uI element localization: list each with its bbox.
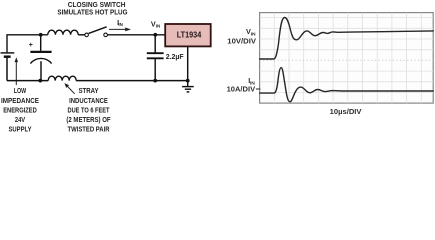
svg-text:+: + [29,42,33,49]
svg-text:ENERGIZED: ENERGIZED [3,107,37,114]
svg-text:DUE TO 6 FEET: DUE TO 6 FEET [68,107,111,114]
inductor L2 stray (bottom) [48,76,76,80]
callout arrow to supply [15,62,17,86]
svg-text:STRAY: STRAY [78,88,98,95]
svg-text:LT1934: LT1934 [177,31,202,40]
label VIN 10V/DIV [227,27,256,45]
svg-text:10A/DIV: 10A/DIV [227,84,256,93]
svg-text:IMPEDANCE: IMPEDANCE [1,98,39,105]
wire switch to VIN node [108,34,166,36]
node cap1 top junction [39,33,43,37]
svg-text:10µs/DIV: 10µs/DIV [330,107,362,116]
ground [187,81,189,87]
node cap1 bottom junction [38,79,42,83]
svg-text:TWISTED PAIR: TWISTED PAIR [68,127,110,134]
callout arrow to stray inductance [67,86,75,94]
svg-text:10V/DIV: 10V/DIV [227,37,256,46]
scope horizontal gridlines [260,18,434,93]
wire bottom rail to ground [76,80,187,82]
scope graticule frame [260,13,434,104]
scope center dashed line [260,59,434,61]
scope vertical gridlines [274,13,421,104]
svg-text:IN: IN [118,22,122,27]
label low impedance supply note [1,88,39,133]
trace IIN waveform [260,68,434,102]
battery V1 24V supply [1,52,15,54]
svg-text:IN: IN [156,24,160,29]
label closing switch note [57,0,127,16]
inductor L1 stray (top) [48,30,78,35]
switch S1 closing switch [85,33,89,37]
svg-text:LOW: LOW [14,88,27,95]
wire top rail from supply to switch [7,35,48,53]
label stray inductance note [66,88,111,133]
op block U1 LT1934 [165,24,211,46]
svg-text:SIMULATES HOT PLUG: SIMULATES HOT PLUG [57,8,127,17]
wire battery to bottom rail [6,58,8,81]
svg-text:24V: 24V [15,117,25,124]
svg-text:(2 METERS) OF: (2 METERS) OF [66,117,111,124]
node cap2 bottom junction [153,79,157,83]
svg-text:2.2µF: 2.2µF [166,54,185,61]
wire U1 to ground [187,46,189,80]
wire bottom rail [7,80,48,82]
wire coil to switch [78,34,85,36]
capacitor C1 supply bulk (polarized) [40,35,42,51]
node ground junction [186,79,190,83]
scope channel tick IIN [256,88,261,90]
svg-text:INDUCTANCE: INDUCTANCE [69,98,108,105]
capacitor C2 2.2uF [154,35,156,53]
svg-text:SUPPLY: SUPPLY [9,127,32,134]
label IIN 10A/DIV [227,76,256,94]
trace VIN waveform [260,18,434,60]
